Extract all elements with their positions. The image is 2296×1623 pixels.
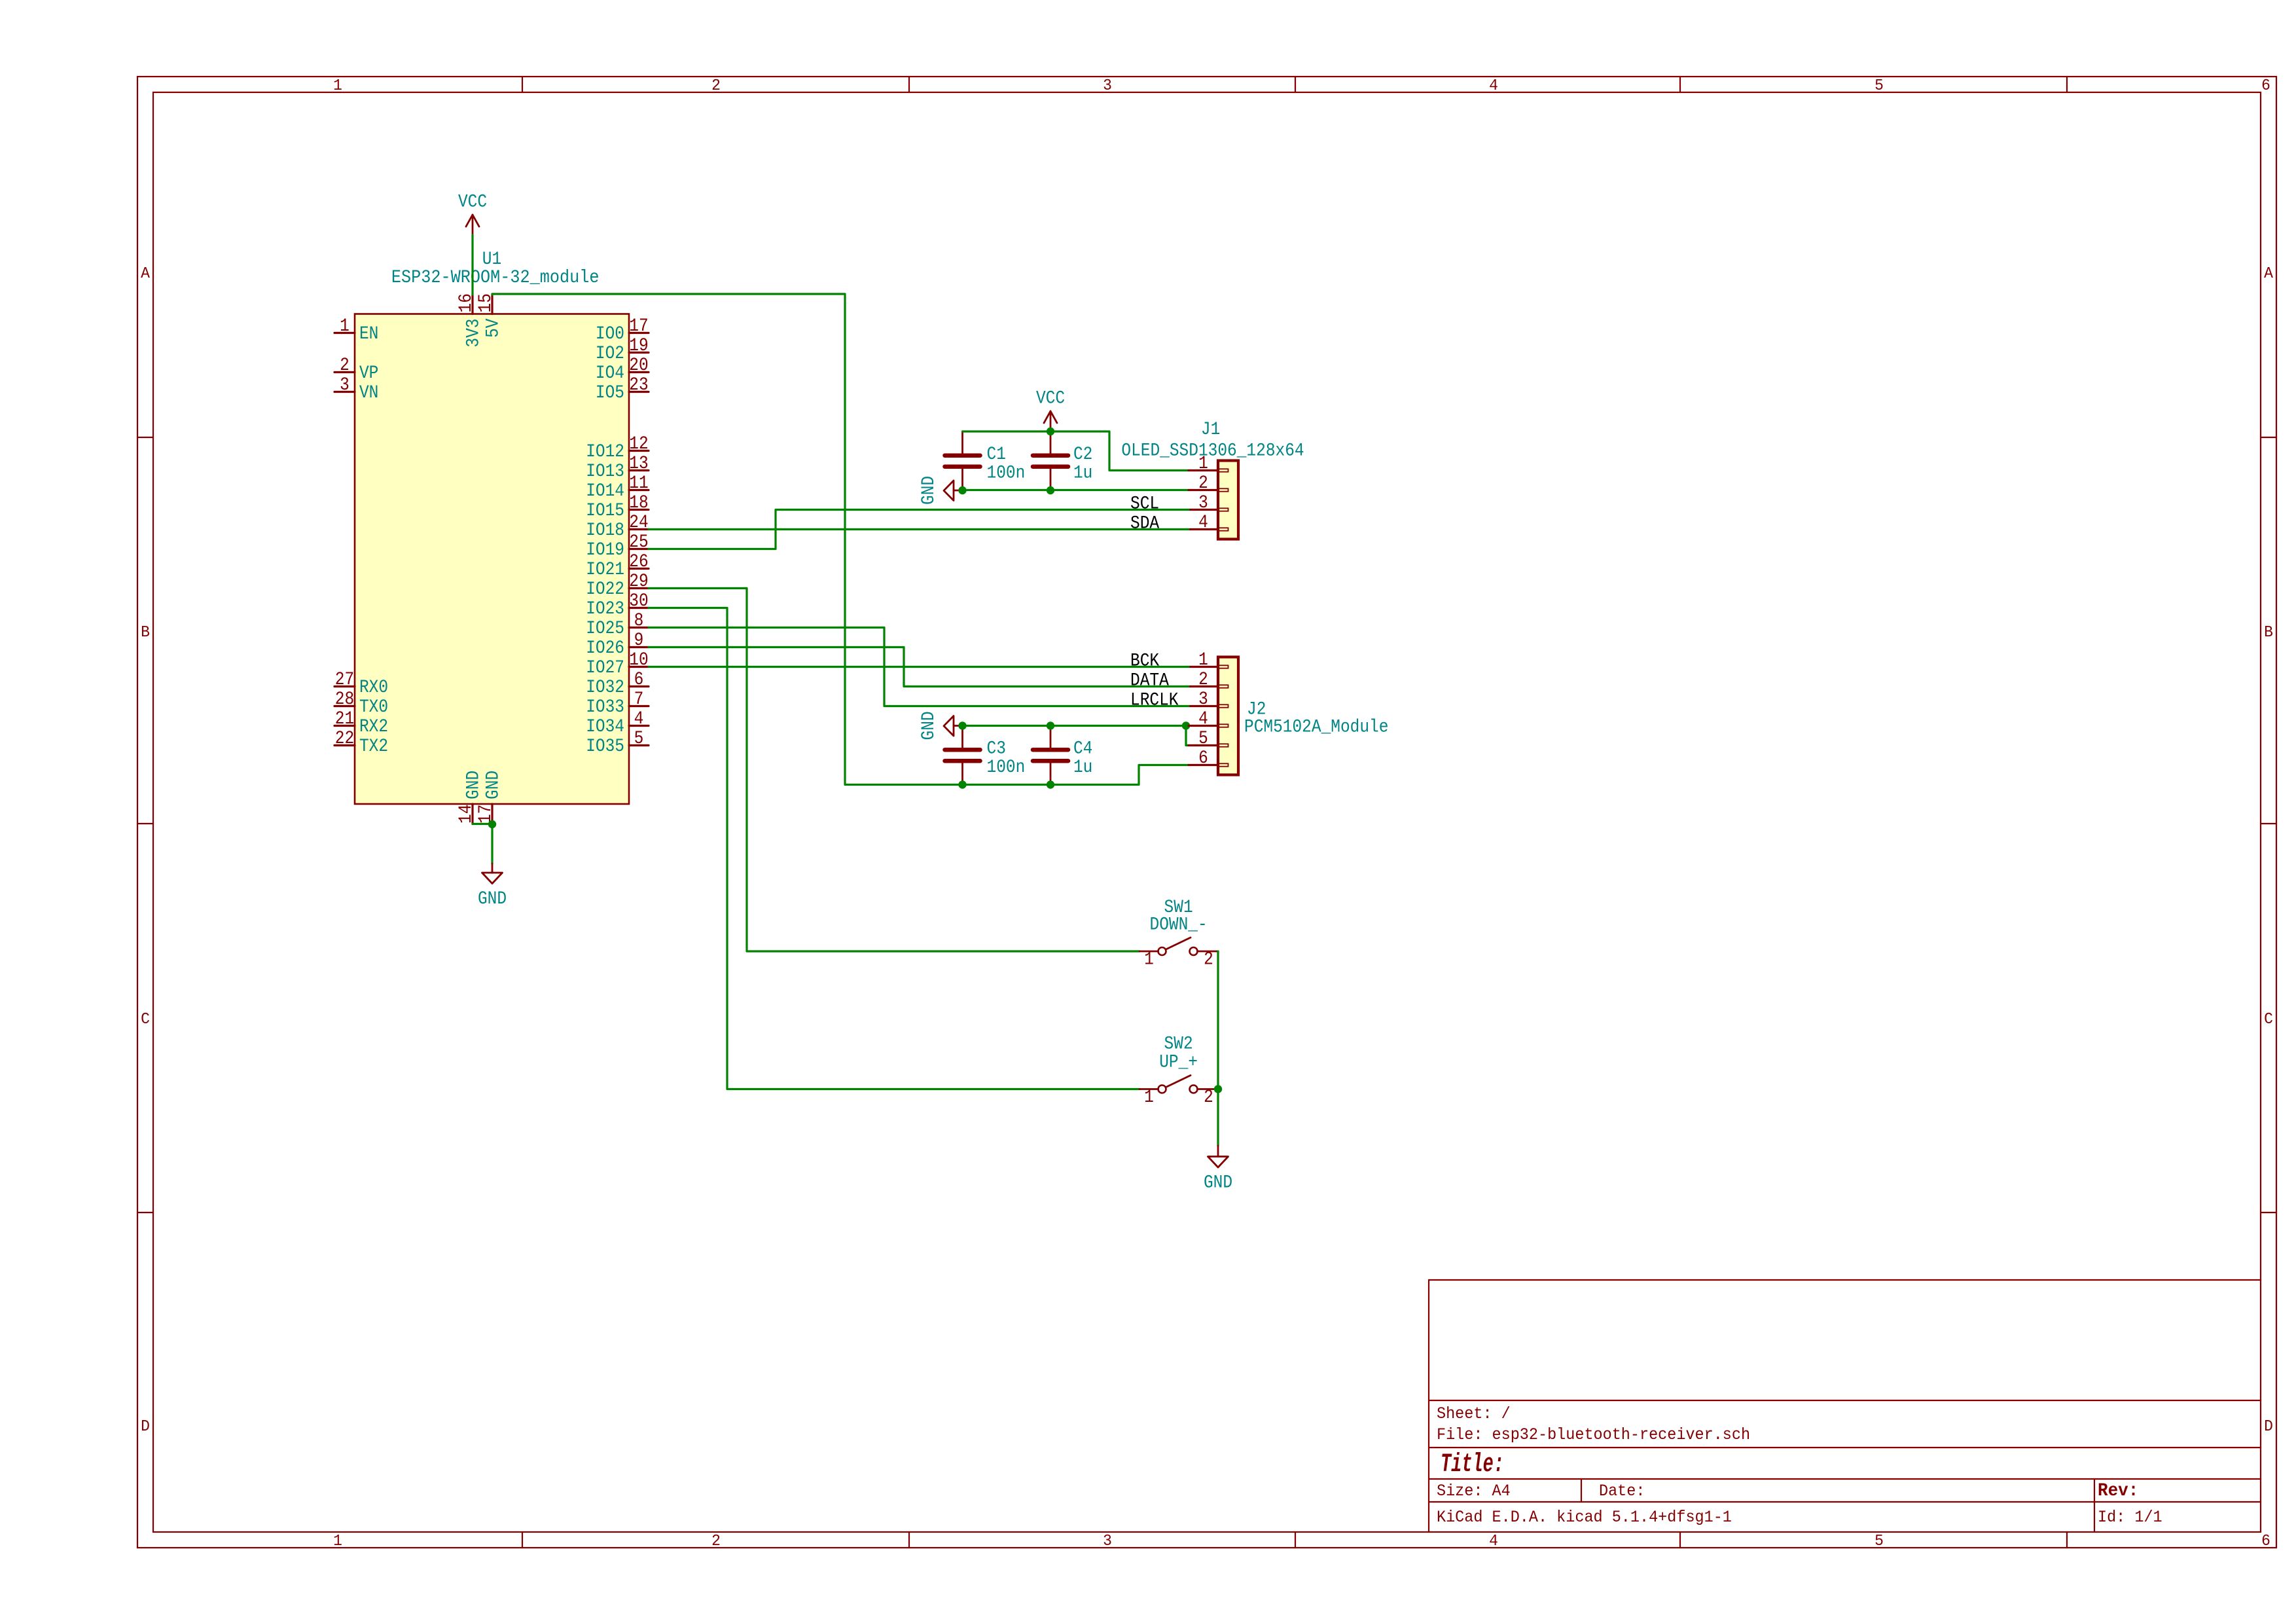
svg-text:IO13: IO13 xyxy=(586,461,624,482)
wire U1 GND down xyxy=(491,824,493,864)
svg-text:2: 2 xyxy=(1204,949,1213,970)
svg-text:1: 1 xyxy=(340,316,350,337)
junction SW2 pin2 xyxy=(1214,1085,1222,1093)
svg-text:7: 7 xyxy=(634,689,644,710)
U1 pin 15 5V xyxy=(475,293,503,338)
svg-text:D: D xyxy=(141,1418,150,1436)
capacitor C3 xyxy=(945,726,1026,785)
svg-text:2: 2 xyxy=(711,1533,721,1551)
svg-text:Id: 1/1: Id: 1/1 xyxy=(2098,1508,2162,1527)
svg-text:14: 14 xyxy=(456,805,476,824)
svg-text:VCC: VCC xyxy=(458,191,487,212)
svg-text:C: C xyxy=(2264,1011,2273,1029)
svg-text:BCK: BCK xyxy=(1130,650,1159,671)
U1 pin 14 GND xyxy=(456,771,484,824)
U1 pin 30 IO23 xyxy=(586,591,649,619)
U1 pin 19 IO2 xyxy=(596,335,649,364)
power symbol GND below U1 xyxy=(478,864,507,909)
svg-text:100n: 100n xyxy=(987,462,1026,483)
svg-text:15: 15 xyxy=(475,293,496,312)
svg-text:IO4: IO4 xyxy=(596,363,624,384)
J2 value PCM5102A_Module xyxy=(1244,716,1388,737)
wire GND rail to J1 pin2 xyxy=(963,489,1189,491)
U1 pin 17 IO0 xyxy=(596,316,649,344)
svg-text:100n: 100n xyxy=(987,757,1026,778)
power symbol VCC above C2 xyxy=(1036,388,1065,431)
svg-text:A: A xyxy=(2264,265,2274,283)
svg-text:27: 27 xyxy=(335,669,354,690)
svg-text:2: 2 xyxy=(1198,473,1208,494)
svg-text:20: 20 xyxy=(629,355,648,376)
U1 pin 27 RX0 xyxy=(334,669,388,698)
svg-text:DATA: DATA xyxy=(1130,670,1169,691)
svg-text:9: 9 xyxy=(634,630,644,651)
wire IO19 to SCL xyxy=(649,510,1189,549)
U1 pin 9 IO26 xyxy=(586,630,649,659)
svg-text:KiCad E.D.A. kicad 5.1.4+dfsg1: KiCad E.D.A. kicad 5.1.4+dfsg1-1 xyxy=(1437,1508,1732,1527)
U1 pin 5 IO35 xyxy=(586,728,649,757)
U1 pin 13 IO13 xyxy=(586,453,649,482)
junction C4 bottom 5V xyxy=(1047,780,1054,788)
svg-text:DOWN_-: DOWN_- xyxy=(1150,914,1208,935)
svg-text:VN: VN xyxy=(359,382,378,403)
svg-text:D: D xyxy=(2264,1418,2273,1436)
U1 pin 12 IO12 xyxy=(586,433,649,462)
title block kicad version text xyxy=(1437,1508,1732,1527)
svg-text:IO12: IO12 xyxy=(586,441,624,462)
svg-text:21: 21 xyxy=(335,708,354,729)
svg-text:IO35: IO35 xyxy=(586,736,624,757)
wire pin16 to VCC xyxy=(471,235,473,295)
title block sheet text xyxy=(1437,1405,1511,1423)
U1 pin 21 RX2 xyxy=(334,708,388,737)
U1 pin 26 IO21 xyxy=(586,551,649,580)
U1 body xyxy=(355,314,629,805)
svg-text:OLED_SSD1306_128x64: OLED_SSD1306_128x64 xyxy=(1121,440,1304,461)
J2 reference xyxy=(1247,699,1266,720)
svg-text:LRCLK: LRCLK xyxy=(1130,689,1179,710)
svg-text:17: 17 xyxy=(629,316,648,337)
svg-text:TX2: TX2 xyxy=(359,736,388,757)
frame row letters xyxy=(141,265,2274,1436)
svg-text:B: B xyxy=(141,624,150,642)
svg-text:1u: 1u xyxy=(1073,757,1092,778)
J2 pin 5 xyxy=(1189,728,1229,749)
svg-text:C4: C4 xyxy=(1073,738,1092,759)
svg-text:IO14: IO14 xyxy=(586,481,624,501)
svg-text:4: 4 xyxy=(1489,1533,1498,1551)
J1 body xyxy=(1218,461,1238,539)
svg-text:5: 5 xyxy=(1874,77,1884,96)
svg-text:IO33: IO33 xyxy=(586,697,624,718)
net label SCL xyxy=(1130,493,1159,514)
svg-text:B: B xyxy=(2264,624,2273,642)
wire IO26 to DATA xyxy=(649,647,1189,687)
svg-text:IO27: IO27 xyxy=(586,657,624,678)
svg-text:16: 16 xyxy=(456,293,476,312)
U1 pin 1 EN xyxy=(334,316,378,344)
svg-text:4: 4 xyxy=(634,708,644,729)
svg-text:GND: GND xyxy=(478,888,507,909)
svg-text:28: 28 xyxy=(335,689,354,710)
svg-text:1: 1 xyxy=(1198,453,1208,474)
U1 pin 6 IO32 xyxy=(586,669,649,698)
svg-text:TX0: TX0 xyxy=(359,697,388,718)
svg-text:GND: GND xyxy=(463,771,484,799)
wire U1 GND pins tie xyxy=(473,823,492,825)
svg-text:3: 3 xyxy=(1198,492,1208,513)
svg-text:IO5: IO5 xyxy=(596,382,624,403)
U1 pin 23 IO5 xyxy=(596,374,649,403)
J2 pin 6 xyxy=(1189,748,1229,769)
J2 body xyxy=(1218,657,1238,775)
svg-text:8: 8 xyxy=(634,610,644,631)
svg-text:EN: EN xyxy=(359,323,378,344)
U1 pin 20 IO4 xyxy=(596,355,649,384)
junction C4 top GND xyxy=(1047,721,1054,729)
junction C1 bottom GND xyxy=(958,486,966,494)
power symbol GND left of C3 xyxy=(918,711,963,740)
wire SW1 pin2 to SW2 pin2 xyxy=(1217,951,1219,1089)
svg-text:4: 4 xyxy=(1198,512,1208,533)
svg-text:6: 6 xyxy=(634,669,644,690)
svg-text:2: 2 xyxy=(711,77,721,96)
svg-text:25: 25 xyxy=(629,532,648,553)
junction VCC C2 top xyxy=(1047,428,1054,435)
wire SW2 pin2 to GND xyxy=(1217,1089,1219,1146)
U1 pin 3 VN xyxy=(334,374,378,403)
svg-text:1: 1 xyxy=(1144,1087,1154,1108)
J2 pin 3 xyxy=(1189,689,1229,710)
title block file text xyxy=(1437,1426,1750,1444)
svg-text:C3: C3 xyxy=(987,738,1006,759)
svg-text:PCM5102A_Module: PCM5102A_Module xyxy=(1244,716,1388,737)
J2 pin 1 xyxy=(1189,649,1229,670)
svg-text:IO19: IO19 xyxy=(586,539,624,560)
svg-text:IO2: IO2 xyxy=(596,343,624,364)
U1 pin 11 IO14 xyxy=(586,473,649,501)
svg-text:29: 29 xyxy=(629,571,648,592)
svg-text:IO18: IO18 xyxy=(586,520,624,541)
junction C3 bottom 5V xyxy=(958,780,966,788)
svg-text:1: 1 xyxy=(1198,649,1208,670)
svg-text:RX2: RX2 xyxy=(359,716,388,737)
wire 5V net xyxy=(492,294,1189,785)
U1 pin 7 IO33 xyxy=(586,689,649,718)
U1 pin 10 IO27 xyxy=(586,649,649,678)
svg-text:6: 6 xyxy=(1198,748,1208,769)
U1 pin 2 VP xyxy=(334,355,378,384)
svg-text:1: 1 xyxy=(333,77,342,96)
svg-text:RX0: RX0 xyxy=(359,677,388,698)
svg-text:13: 13 xyxy=(629,453,648,474)
power symbol VCC above U1 xyxy=(458,191,487,235)
svg-text:22: 22 xyxy=(335,728,354,749)
svg-text:6: 6 xyxy=(2261,77,2270,96)
svg-text:2: 2 xyxy=(1198,669,1208,690)
svg-text:IO26: IO26 xyxy=(586,638,624,659)
wire IO27 to BCK xyxy=(649,666,1189,668)
svg-text:1u: 1u xyxy=(1073,462,1092,483)
svg-text:SCL: SCL xyxy=(1130,493,1159,514)
capacitor C4 xyxy=(1033,726,1092,785)
junction C2 bottom GND xyxy=(1047,486,1054,494)
svg-text:IO25: IO25 xyxy=(586,618,624,639)
svg-text:GND: GND xyxy=(918,476,939,505)
svg-text:C: C xyxy=(141,1011,150,1029)
svg-text:5: 5 xyxy=(1198,728,1208,749)
svg-text:J1: J1 xyxy=(1201,419,1220,440)
svg-text:26: 26 xyxy=(629,551,648,572)
svg-text:4: 4 xyxy=(1489,77,1498,96)
svg-text:IO22: IO22 xyxy=(586,579,624,600)
J1 reference xyxy=(1201,419,1220,440)
J1 pin 3 xyxy=(1189,492,1229,513)
J1 pin 4 xyxy=(1189,512,1229,533)
capacitor C1 xyxy=(945,431,1026,490)
junction C3 top GND xyxy=(958,721,966,729)
svg-text:5: 5 xyxy=(1874,1533,1884,1551)
svg-text:11: 11 xyxy=(629,473,648,494)
wire IO25 to LRCLK xyxy=(649,628,1189,706)
svg-text:1: 1 xyxy=(333,1533,342,1551)
svg-text:IO23: IO23 xyxy=(586,598,624,619)
svg-text:C2: C2 xyxy=(1073,444,1092,465)
junction GND at J2 pin4 xyxy=(1182,721,1190,729)
svg-text:UP_+: UP_+ xyxy=(1159,1051,1198,1072)
power symbol GND left of C1 xyxy=(918,476,963,505)
U1 value ESP32-WROOM-32_module xyxy=(391,268,600,289)
svg-text:24: 24 xyxy=(629,512,648,533)
svg-text:2: 2 xyxy=(340,355,350,376)
wire IO18 to SDA xyxy=(649,528,1189,530)
switch SW2 UP_+ xyxy=(1139,1033,1218,1107)
U1 pin 4 IO34 xyxy=(586,708,649,737)
svg-text:3: 3 xyxy=(1103,77,1112,96)
U1 pin 22 TX2 xyxy=(334,728,388,757)
capacitor C2 xyxy=(1033,431,1092,490)
svg-text:4: 4 xyxy=(1198,708,1208,729)
power symbol GND below SW2 xyxy=(1204,1146,1232,1193)
wire IO22 to SW1 xyxy=(649,589,1139,952)
wire IO23 to SW2 xyxy=(649,608,1139,1089)
svg-text:C1: C1 xyxy=(987,444,1006,465)
net label BCK xyxy=(1130,650,1159,671)
svg-text:U1: U1 xyxy=(482,249,501,270)
U1 pin 18 IO15 xyxy=(586,492,649,521)
net label LRCLK xyxy=(1130,689,1179,710)
svg-text:VP: VP xyxy=(359,363,378,384)
svg-text:23: 23 xyxy=(629,374,648,395)
title block rev label xyxy=(2098,1480,2138,1501)
svg-text:IO34: IO34 xyxy=(586,716,624,737)
svg-text:5V: 5V xyxy=(482,318,503,338)
svg-text:Date:: Date: xyxy=(1599,1482,1645,1501)
switch SW1 DOWN_- xyxy=(1139,897,1218,970)
svg-text:10: 10 xyxy=(629,649,648,670)
svg-text:30: 30 xyxy=(629,591,648,611)
U1 pin 24 IO18 xyxy=(586,512,649,541)
svg-text:GND: GND xyxy=(918,711,939,740)
U1 pin 25 IO19 xyxy=(586,532,649,560)
svg-text:3V3: 3V3 xyxy=(463,319,484,348)
junction U1 GND pins xyxy=(488,820,496,828)
J2 pin 4 xyxy=(1189,708,1229,729)
svg-text:SW2: SW2 xyxy=(1164,1033,1193,1054)
svg-text:Size: A4: Size: A4 xyxy=(1437,1482,1511,1501)
svg-text:Sheet: /: Sheet: / xyxy=(1437,1405,1511,1423)
svg-text:SDA: SDA xyxy=(1130,513,1159,534)
svg-text:Rev:: Rev: xyxy=(2098,1480,2138,1501)
svg-text:19: 19 xyxy=(629,335,648,356)
title block Title label xyxy=(1441,1450,1504,1480)
svg-text:GND: GND xyxy=(482,771,503,799)
svg-text:VCC: VCC xyxy=(1036,388,1065,409)
svg-text:IO15: IO15 xyxy=(586,500,624,521)
svg-text:3: 3 xyxy=(340,374,350,395)
U1 reference xyxy=(482,249,501,270)
net label SDA xyxy=(1130,513,1159,534)
svg-text:A: A xyxy=(141,265,151,283)
U1 pin 8 IO25 xyxy=(586,610,649,639)
J1 pin 1 xyxy=(1189,453,1229,474)
J1 pin 2 xyxy=(1189,473,1229,494)
wire VCC rail to J1 pin1 xyxy=(963,431,1189,471)
U1 pin 17 GND xyxy=(475,771,503,824)
svg-text:IO32: IO32 xyxy=(586,677,624,698)
title block date text xyxy=(1599,1482,1645,1501)
title block id text xyxy=(2098,1508,2162,1527)
svg-text:3: 3 xyxy=(1198,689,1208,710)
U1 pin 29 IO22 xyxy=(586,571,649,600)
net label DATA xyxy=(1130,670,1169,691)
svg-text:1: 1 xyxy=(1144,949,1154,970)
J1 value OLED_SSD1306_128x64 xyxy=(1121,440,1304,461)
svg-text:GND: GND xyxy=(1204,1172,1232,1193)
svg-text:IO0: IO0 xyxy=(596,323,624,344)
J2 pin 2 xyxy=(1189,669,1229,690)
svg-text:6: 6 xyxy=(2261,1533,2270,1551)
svg-text:IO21: IO21 xyxy=(586,559,624,580)
svg-text:File: esp32-bluetooth-receiver: File: esp32-bluetooth-receiver.sch xyxy=(1437,1426,1750,1444)
U1 pin 28 TX0 xyxy=(334,689,388,718)
svg-text:12: 12 xyxy=(629,433,648,454)
title block lines xyxy=(1429,1280,2261,1532)
wire GND rail to J2 pins 4 5 xyxy=(963,726,1189,746)
svg-text:3: 3 xyxy=(1103,1533,1112,1551)
svg-text:2: 2 xyxy=(1204,1087,1213,1108)
svg-text:5: 5 xyxy=(634,728,644,749)
svg-text:ESP32-WROOM-32_module: ESP32-WROOM-32_module xyxy=(391,268,600,289)
title block size text xyxy=(1437,1482,1511,1501)
frame column numbers xyxy=(333,77,2270,1551)
svg-text:18: 18 xyxy=(629,492,648,513)
U1 pin 16 3V3 xyxy=(456,293,484,347)
svg-text:Title:: Title: xyxy=(1441,1450,1504,1480)
